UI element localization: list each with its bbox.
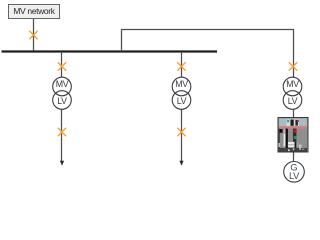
svg-text:MV: MV (56, 79, 69, 89)
svg-text:LV: LV (177, 96, 187, 106)
transformer T3 MV/LV generator branch (283, 77, 302, 109)
bus LV main busbar (2, 50, 218, 52)
arrow middle load (179, 161, 183, 166)
svg-text:LV: LV (288, 96, 298, 106)
wire feeder up-over to generator branch (122, 30, 294, 63)
wire MV-network drop (33, 19, 35, 52)
wire right generator branch (293, 62, 295, 162)
switch X middle feeder bottom (178, 128, 186, 136)
svg-text:MV: MV (175, 79, 188, 89)
generator G/LV circle (284, 162, 305, 183)
transformer T2 MV/LV middle (172, 77, 191, 109)
switch X left feeder top (58, 63, 66, 71)
switch X left feeder bottom (58, 128, 66, 136)
svg-text:MV: MV (286, 79, 299, 89)
box MV network (9, 5, 60, 19)
svg-text:LV: LV (289, 171, 300, 181)
switch X generator branch (289, 63, 297, 71)
switch X incomer (30, 31, 38, 39)
controller unit photo (278, 118, 308, 153)
arrow left load (60, 161, 64, 166)
svg-text:MV network: MV network (13, 6, 55, 16)
switch X middle feeder top (178, 63, 186, 71)
wire middle feeder branch (181, 52, 183, 161)
svg-text:LV: LV (57, 96, 67, 106)
wire left feeder branch (61, 52, 63, 161)
transformer T1 MV/LV left (53, 77, 72, 109)
